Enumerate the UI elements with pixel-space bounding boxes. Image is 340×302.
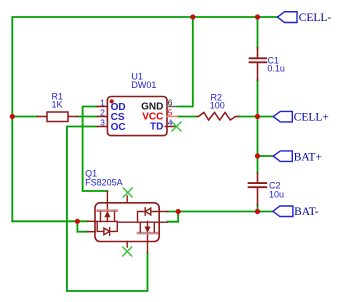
wire VCC pin5 to R2 — [177, 116, 196, 118]
Q1 left mosfet left stub — [100, 212, 102, 222]
wire top horizontal B+ — [12, 17, 277, 221]
U1 pin3 stub — [97, 126, 107, 128]
svg-text:TD: TD — [150, 122, 163, 133]
port BAT+ — [273, 151, 292, 162]
port CELL- — [278, 12, 298, 23]
wire OD pin1 to gate vertical — [83, 107, 108, 192]
wire Q1 right lower pin up to BAT- node — [168, 212, 179, 222]
wire R2 to CELL+ node — [239, 116, 274, 118]
wire BAT+ stub — [258, 155, 274, 157]
wire OC pin3 down-around to Q1 bottom pin — [67, 127, 148, 292]
svg-text:3: 3 — [100, 117, 105, 127]
Q1 left pin2 stub — [88, 231, 95, 233]
node Q1 right — [176, 209, 181, 214]
wire branch to Q1 pin2 — [77, 221, 87, 231]
no-connect X top of Q1 — [123, 188, 132, 197]
wire C1 top from top rail — [257, 17, 259, 48]
capacitor C2 — [249, 173, 267, 205]
svg-text:FS8205A: FS8205A — [85, 178, 123, 188]
U1 pin2 stub — [97, 116, 107, 118]
svg-text:10u: 10u — [269, 190, 284, 200]
svg-text:1K: 1K — [52, 100, 63, 110]
node Q1 left — [75, 219, 80, 224]
Q1 top NC pin — [126, 196, 128, 203]
transistor Q1 FS8205A body — [95, 203, 159, 242]
Q1 upper right pin to BAT- — [151, 211, 168, 213]
Q1 right mosfet gate pin to bottom — [147, 234, 149, 253]
svg-text:0.1u: 0.1u — [267, 64, 285, 74]
svg-text:6: 6 — [168, 97, 173, 107]
resistor R1 — [37, 112, 77, 122]
wire C2 bottom to BAT- node — [257, 205, 259, 212]
node R1 left — [10, 114, 15, 119]
svg-text:4: 4 — [168, 117, 173, 127]
Q1 internal rail right / lower right pin — [117, 221, 167, 223]
node top rail / C1 — [255, 14, 260, 19]
no-connect X on pin4 — [172, 122, 181, 131]
Q1 right mosfet right stub — [153, 222, 155, 232]
Q1 internal rail left — [95, 220, 117, 222]
op-amp U1 DW01 body — [107, 97, 167, 136]
Q1 right body diode loop — [138, 212, 146, 222]
node top rail / GND riser — [190, 14, 195, 19]
Q1 left mosfet channel bar — [98, 209, 117, 212]
resistor R2 — [197, 112, 239, 120]
svg-text:2: 2 — [100, 107, 105, 117]
svg-text:1: 1 — [100, 97, 105, 107]
capacitor C1 — [250, 48, 267, 80]
Q1 left mosfet right stub — [114, 212, 116, 222]
wire BAT- horizontal — [168, 211, 273, 213]
U1 pin4 stub — [165, 126, 176, 128]
Q1 bottom NC pin — [126, 242, 128, 248]
Q1 left pin1 stub — [88, 220, 95, 222]
Q1 left mosfet gate pin from top — [106, 191, 108, 210]
port CELL+ — [273, 111, 292, 122]
U1 pin1 stub — [97, 106, 107, 108]
wire R1 left — [12, 116, 37, 118]
wire GND pin6 up to top rail — [177, 17, 192, 107]
svg-text:BAT-: BAT- — [294, 206, 319, 218]
svg-text:OC: OC — [111, 122, 126, 133]
svg-text:BAT+: BAT+ — [294, 151, 322, 163]
U1 pin1 dot — [110, 99, 114, 103]
Q1 left body diode loop — [97, 221, 104, 231]
U1 pin5 stub — [167, 116, 177, 118]
port BAT- — [273, 206, 293, 217]
Q1 right mosfet substrate arrow — [147, 222, 149, 228]
Q1 right mosfet channel bar — [138, 232, 157, 235]
no-connect X bottom of Q1 — [123, 247, 132, 256]
node CELL+ — [255, 114, 260, 119]
wire R1 to CS pin2 — [78, 116, 98, 118]
node BAT+ — [255, 153, 260, 158]
U1 pin6 stub — [167, 106, 177, 108]
Q1 right mosfet left stub — [139, 222, 141, 232]
svg-text:CELL+: CELL+ — [294, 112, 329, 124]
svg-text:100: 100 — [210, 101, 225, 111]
svg-text:DW01: DW01 — [131, 80, 156, 90]
svg-text:5: 5 — [168, 107, 173, 117]
svg-text:CELL-: CELL- — [299, 12, 332, 24]
wire bottom-left horizontal to Q1 pin1 — [12, 220, 87, 222]
node BAT- — [255, 209, 260, 214]
wire C1 bottom through CELL+ to C2 top — [257, 80, 259, 173]
Q1 left mosfet substrate arrow — [106, 216, 108, 222]
